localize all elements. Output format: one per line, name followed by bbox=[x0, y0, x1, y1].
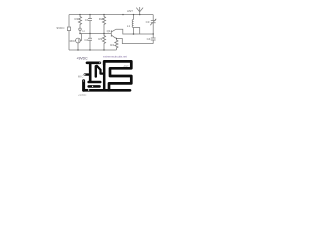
transistor Q1 bbox=[111, 29, 116, 38]
resistor R1 bbox=[78, 15, 81, 28]
wire top rail bbox=[69, 14, 153, 16]
svg-text:C3: C3 bbox=[146, 20, 150, 24]
node circle under R1 bbox=[79, 28, 82, 31]
trace diagonal bbox=[97, 66, 104, 74]
svg-text:C1: C1 bbox=[85, 18, 89, 22]
svg-text:R3: R3 bbox=[98, 37, 102, 41]
svg-text:ANT: ANT bbox=[124, 64, 130, 68]
wire emitter bbox=[116, 39, 153, 44]
trace vertical vd bbox=[95, 66, 97, 76]
resistor R2 bbox=[102, 15, 105, 34]
trace meander serpentine bbox=[104, 61, 131, 90]
wire left vertical lower bbox=[68, 31, 70, 50]
9VDC connector bbox=[68, 27, 71, 31]
inductor L1 bbox=[132, 15, 133, 28]
trace bottom bar b5 bbox=[84, 89, 130, 92]
wire circle to base line bbox=[79, 31, 81, 34]
trace +9V top bar bbox=[87, 61, 100, 64]
svg-text:extremecircuits.net: extremecircuits.net bbox=[103, 54, 127, 58]
svg-text:R2: R2 bbox=[99, 17, 103, 21]
svg-text:1A: 1A bbox=[82, 30, 85, 33]
svg-text:R4: R4 bbox=[110, 43, 114, 47]
svg-text:Q1: Q1 bbox=[107, 29, 111, 33]
antenna ANT bbox=[136, 7, 143, 15]
trace vertical under top bar bbox=[89, 65, 101, 87]
svg-text:C2: C2 bbox=[84, 38, 88, 42]
junction dots bbox=[77, 14, 154, 51]
wire bottom rail bbox=[69, 49, 116, 51]
svg-text:+9VDC: +9VDC bbox=[77, 57, 89, 61]
resistor R3 bbox=[102, 34, 105, 51]
svg-text:MIC: MIC bbox=[78, 75, 84, 79]
capacitor C1 bbox=[88, 15, 92, 34]
pad holes bbox=[83, 62, 100, 90]
svg-text:L1: L1 bbox=[127, 24, 131, 28]
pad mic stub bbox=[85, 73, 89, 75]
wire left vertical upper bbox=[68, 15, 70, 27]
svg-text:C4: C4 bbox=[147, 37, 151, 41]
capacitor C2 bbox=[88, 34, 92, 51]
svg-text:R1: R1 bbox=[75, 17, 79, 21]
wire base line bbox=[80, 33, 111, 35]
svg-text:ANT: ANT bbox=[127, 9, 133, 13]
trace big vertical bbox=[82, 81, 85, 91]
wire collector bbox=[116, 29, 153, 34]
capacitor C4 bbox=[151, 34, 156, 44]
svg-text:9VDC: 9VDC bbox=[57, 26, 66, 30]
resistor R4 bbox=[115, 39, 118, 51]
wire L1 bottom loop bbox=[134, 28, 140, 35]
schematic labels bbox=[57, 9, 151, 47]
capacitor C3 variable bbox=[150, 15, 156, 34]
svg-text:+9VDC: +9VDC bbox=[78, 93, 87, 97]
microphone MIC bbox=[76, 38, 81, 43]
svg-text:MIC: MIC bbox=[70, 39, 76, 43]
trace meander feed vertical bbox=[103, 64, 106, 91]
